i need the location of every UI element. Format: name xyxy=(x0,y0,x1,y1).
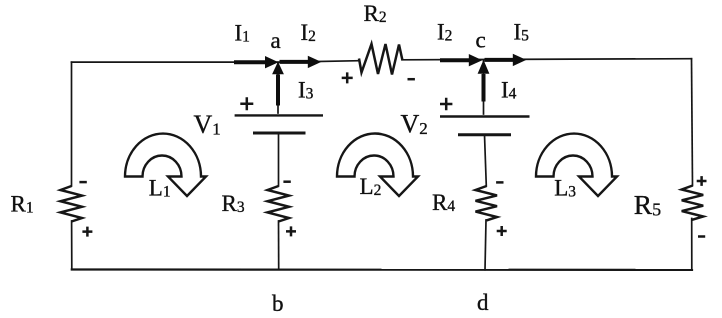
R2 plus xyxy=(342,72,353,83)
R2 minus xyxy=(408,78,415,81)
wire R3 to node b xyxy=(278,221,280,270)
wire node c to V2 xyxy=(483,60,485,114)
current arrow I2 at node a xyxy=(280,60,309,64)
wire right vertical upper xyxy=(692,59,693,186)
wire top right segment xyxy=(403,59,692,60)
loop arrow L3 xyxy=(536,134,617,196)
battery V2 bottom plate xyxy=(458,133,511,136)
R5 plus xyxy=(697,176,707,186)
wire top left segment xyxy=(72,61,360,62)
wire node a to V1 xyxy=(277,62,279,113)
battery V1 top plate xyxy=(235,114,323,116)
R1 plus xyxy=(82,227,92,237)
battery V1 plus xyxy=(240,97,253,110)
R3 plus xyxy=(286,226,296,236)
wire left vertical lower xyxy=(71,221,73,270)
wire V1 to R3 xyxy=(278,133,280,186)
loop arrow L2 xyxy=(337,133,418,196)
svg-text:a: a xyxy=(271,28,281,53)
wire V2 to R4 xyxy=(485,135,487,186)
resistor R2 xyxy=(359,44,403,75)
svg-text:b: b xyxy=(272,291,284,316)
R4 minus xyxy=(496,181,503,184)
wire right vertical lower xyxy=(691,219,693,270)
R3 minus xyxy=(283,180,290,183)
wire left vertical upper xyxy=(71,62,73,186)
current arrow I4 xyxy=(482,74,486,102)
battery V2 plus xyxy=(440,98,452,110)
battery V2 top plate xyxy=(440,115,530,117)
resistor R1 xyxy=(61,186,83,222)
wire bottom xyxy=(72,268,692,271)
current arrow I1 xyxy=(234,60,266,64)
R4 plus xyxy=(497,226,507,236)
svg-text:c: c xyxy=(476,28,486,53)
resistor R3 xyxy=(268,186,290,222)
loop arrow L1 xyxy=(125,134,206,196)
R5 minus xyxy=(698,235,705,238)
resistor R4 xyxy=(476,186,498,220)
battery V1 bottom plate xyxy=(253,132,306,135)
current arrow I3 xyxy=(276,75,280,106)
current arrow I5 xyxy=(485,58,514,62)
resistor R5 xyxy=(682,186,704,220)
svg-text:d: d xyxy=(477,290,489,315)
wire R4 to node d xyxy=(485,220,486,270)
R1 minus xyxy=(79,181,86,184)
current arrow I2 at node c xyxy=(440,58,470,62)
